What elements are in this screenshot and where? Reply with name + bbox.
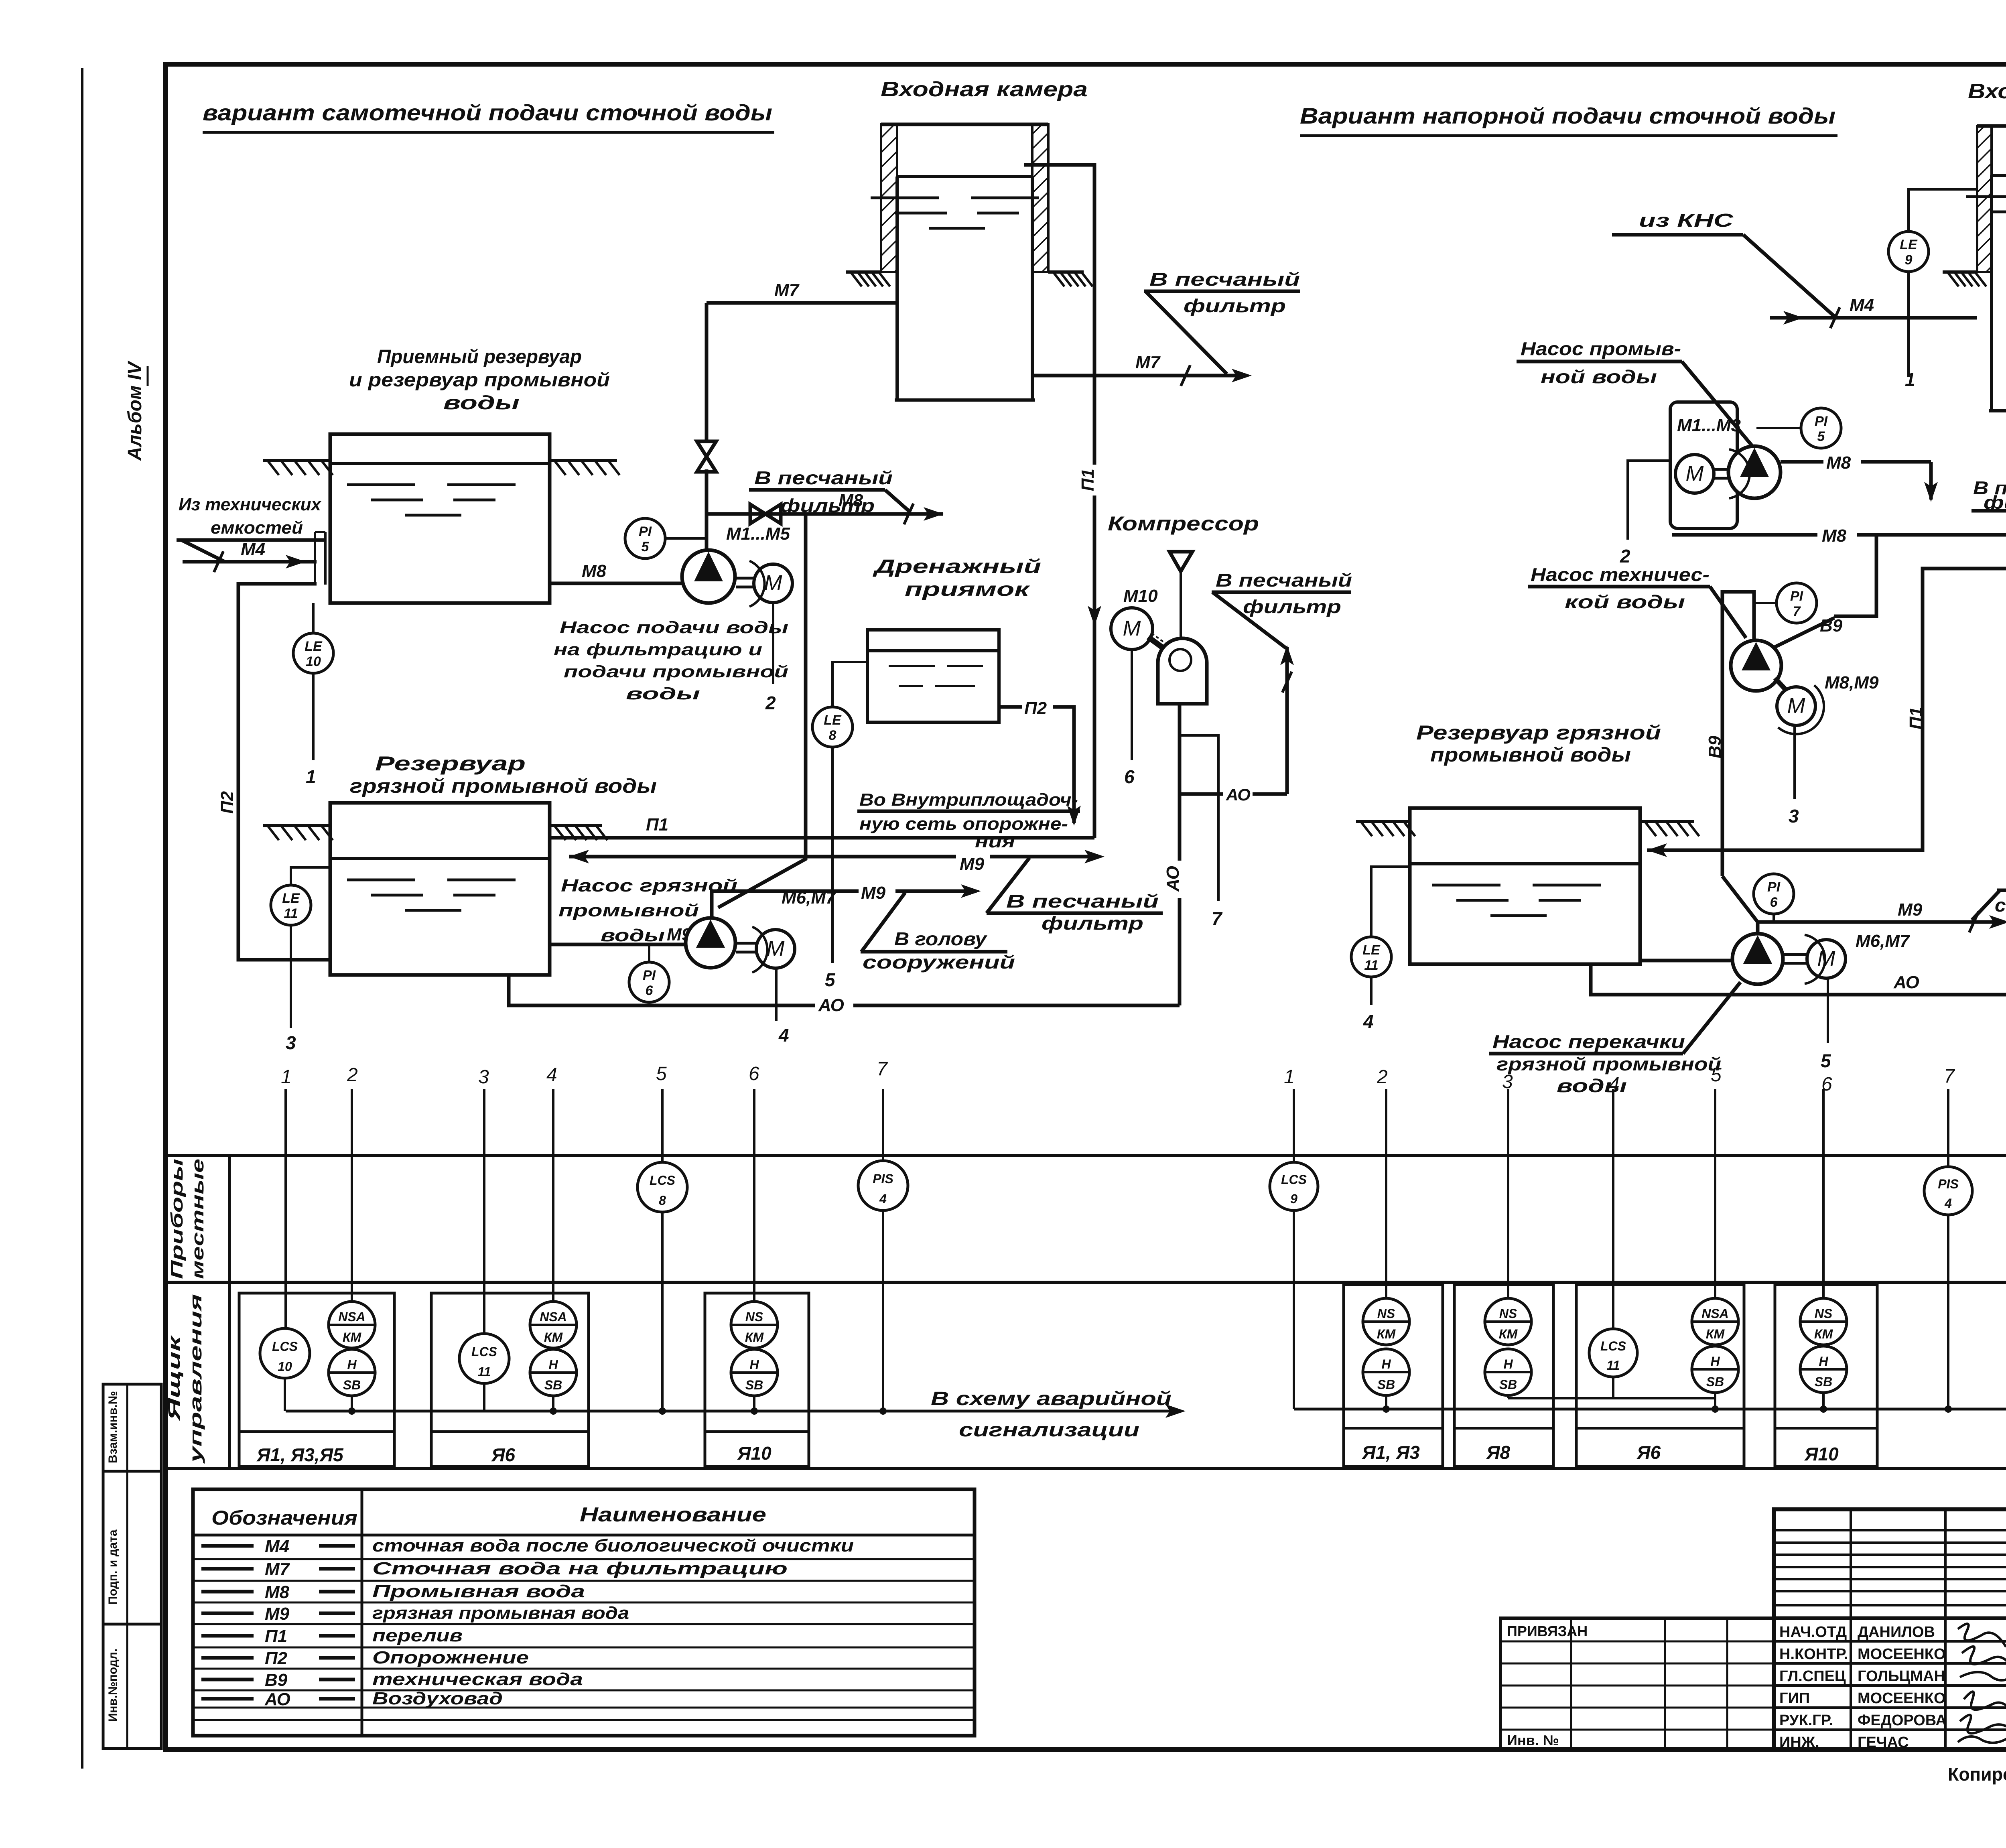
svg-text:7: 7	[1212, 908, 1223, 929]
svg-text:SВ: SВ	[544, 1378, 562, 1392]
svg-text:Дренажный: Дренажный	[872, 556, 1041, 577]
svg-text:Входная камера: Входная камера	[1968, 80, 2006, 103]
svg-text:грязной промывной воды: грязной промывной воды	[350, 775, 657, 797]
svg-text:М4: М4	[241, 540, 265, 559]
svg-text:Инв.№подл.: Инв.№подл.	[106, 1649, 120, 1722]
wire node 2 right	[1628, 461, 1670, 540]
svg-text:PI: PI	[1815, 414, 1828, 429]
instrument NSA KM box2	[530, 1302, 577, 1348]
motor of H2	[756, 930, 795, 968]
instrument PIS4 local	[858, 1161, 908, 1210]
svg-text:АО: АО	[1226, 785, 1251, 804]
wire to node 1	[312, 673, 315, 760]
svg-text:КМ: КМ	[745, 1330, 764, 1344]
motor of K1	[1111, 608, 1153, 650]
instrument NSA KM box1	[329, 1302, 375, 1348]
svg-text:7: 7	[1793, 604, 1801, 619]
wire M9 long to sand filter	[569, 855, 956, 859]
instrument NS KM rbox4	[1800, 1298, 1847, 1345]
instrument PI7	[1777, 583, 1817, 623]
instrument LE11	[291, 867, 330, 885]
svg-text:Н: Н	[749, 1357, 759, 1372]
svg-text:Опорожнение: Опорожнение	[372, 1648, 529, 1667]
svg-text:Во Внутриплощадоч-: Во Внутриплощадоч-	[859, 790, 1078, 810]
svg-text:В9: В9	[265, 1670, 288, 1690]
wire to node 4	[775, 968, 778, 1021]
instrument PI6	[629, 962, 669, 1002]
svg-text:6: 6	[749, 1063, 759, 1084]
svg-text:и резервуар промывной: и резервуар промывной	[349, 370, 610, 391]
svg-text:КМ: КМ	[343, 1330, 362, 1344]
wire to node 4 right	[1370, 978, 1373, 1005]
svg-text:Резервуар: Резервуар	[375, 752, 526, 775]
svg-text:П1: П1	[1078, 469, 1098, 491]
svg-text:М8: М8	[1822, 526, 1847, 546]
instrument LE8	[832, 662, 869, 707]
pump H5 transfer pump	[1732, 934, 1783, 984]
svg-text:ИНЖ.: ИНЖ.	[1779, 1734, 1819, 1751]
svg-text:5: 5	[1711, 1064, 1722, 1086]
svg-text:П2: П2	[265, 1649, 288, 1668]
instrument LE11 right	[1371, 867, 1410, 936]
svg-text:М9: М9	[960, 854, 985, 874]
svg-text:10: 10	[278, 1359, 292, 1374]
instrument LE10	[312, 603, 315, 633]
svg-text:сигнализации: сигнализации	[959, 1420, 1139, 1441]
instrument PI6 right	[1754, 874, 1794, 914]
instrument LCS11 left	[459, 1334, 509, 1383]
svg-text:М7: М7	[265, 1560, 290, 1579]
svg-text:1: 1	[281, 1066, 292, 1088]
wire AO to sand filter arrow	[1180, 792, 1223, 796]
svg-text:5: 5	[656, 1063, 667, 1084]
instrument table top line	[165, 1154, 2006, 1157]
svg-text:В9: В9	[1705, 735, 1725, 758]
row label divider	[228, 1156, 231, 1468]
svg-text:Насос перекачки: Насос перекачки	[1492, 1031, 1685, 1052]
svg-text:М4: М4	[265, 1537, 289, 1556]
svg-text:фильтр: фильтр	[1184, 295, 1286, 316]
svg-text:М7: М7	[774, 280, 800, 300]
svg-text:ния: ния	[975, 832, 1015, 851]
signature rows	[1774, 1640, 2006, 1643]
wire to node 5	[831, 747, 834, 963]
svg-text:ДАНИЛОВ: ДАНИЛОВ	[1858, 1624, 1935, 1641]
instrument H SB box2	[530, 1349, 577, 1396]
svg-text:Я1, Я3: Я1, Я3	[1362, 1442, 1420, 1463]
svg-text:NS: NS	[1377, 1306, 1395, 1321]
svg-text:NSA: NSA	[540, 1310, 567, 1324]
wire M9 discharge from H2	[712, 891, 859, 918]
legend line М7	[201, 1567, 254, 1571]
svg-text:вариант самотечной подачи с: вариант самотечной подачи сточной воды	[203, 100, 772, 125]
svg-text:5: 5	[1817, 429, 1825, 444]
svg-text:SВ: SВ	[1706, 1375, 1724, 1389]
svg-text:Я6: Я6	[1636, 1442, 1661, 1463]
svg-text:грязная промывная вода: грязная промывная вода	[372, 1603, 629, 1623]
ground left of T5	[1943, 270, 1977, 274]
pump H2 dirty wash pump	[686, 918, 735, 968]
svg-text:воды: воды	[626, 684, 700, 703]
left margin stamp boxes	[103, 1384, 161, 1748]
svg-text:АО: АО	[1893, 973, 1919, 992]
svg-text:LCS: LCS	[1600, 1339, 1626, 1353]
tank T1 receiving reservoir	[330, 434, 550, 603]
valve V1	[697, 441, 716, 472]
svg-text:PIS: PIS	[1938, 1177, 1959, 1191]
svg-text:PI: PI	[1767, 879, 1781, 895]
wire B9 kink to pump H5	[1722, 876, 1758, 922]
wire P2 from T1 to T2	[238, 584, 330, 960]
svg-text:приямок: приямок	[905, 579, 1031, 600]
svg-text:В песчаный: В песчаный	[754, 467, 893, 488]
svg-text:В9: В9	[1820, 616, 1843, 636]
instrument NS KM box3	[731, 1302, 778, 1348]
svg-text:Приемный резервуар: Приемный резервуар	[377, 346, 582, 368]
svg-text:1: 1	[1905, 369, 1915, 390]
svg-text:М8,М9: М8,М9	[1825, 673, 1879, 692]
ground left of T3	[846, 270, 881, 274]
svg-text:Н: Н	[1819, 1354, 1828, 1369]
wire B9 suction elbow	[1722, 592, 1754, 876]
wire to node 1 right	[1907, 272, 1910, 377]
svg-text:Взам.инв.№: Взам.инв.№	[106, 1391, 120, 1463]
svg-text:промывной: промывной	[558, 901, 699, 920]
svg-text:Резервуар грязной: Резервуар грязной	[1416, 721, 1661, 744]
svg-text:LCS: LCS	[1281, 1172, 1307, 1187]
svg-text:LE: LE	[824, 713, 842, 728]
wire M8 lower to sand filter	[1672, 533, 1817, 537]
svg-text:NS: NS	[1815, 1306, 1833, 1321]
svg-text:П2: П2	[217, 791, 237, 814]
svg-text:4: 4	[546, 1064, 557, 1086]
svg-text:М: М	[1817, 946, 1835, 971]
svg-text:8: 8	[829, 728, 837, 743]
title block thin rows top-left	[1774, 1529, 2006, 1531]
legend line П2	[201, 1656, 254, 1660]
svg-text:Обозначения: Обозначения	[211, 1507, 357, 1529]
svg-text:Промывная вода: Промывная вода	[372, 1582, 585, 1601]
interconnect segment	[1508, 1397, 1715, 1399]
svg-text:5: 5	[1821, 1050, 1831, 1071]
svg-text:АО: АО	[264, 1690, 290, 1709]
svg-text:М: М	[767, 936, 785, 961]
svg-text:М: М	[1123, 616, 1141, 640]
svg-text:1: 1	[306, 766, 316, 787]
svg-text:9: 9	[1290, 1192, 1297, 1206]
svg-text:КМ: КМ	[1706, 1327, 1725, 1341]
legend line В9	[201, 1678, 254, 1681]
svg-text:фильтр: фильтр	[1984, 492, 2006, 513]
svg-text:NS: NS	[1499, 1306, 1517, 1321]
pump H3	[1728, 446, 1781, 498]
instrument LCS10	[260, 1328, 310, 1378]
svg-text:сооружений: сооружений	[1995, 895, 2006, 916]
wire M8 upper discharge	[1781, 460, 1823, 464]
instrument H SB rbox2	[1485, 1349, 1531, 1395]
motor of H3	[1675, 455, 1714, 493]
wire node 3 right	[1793, 726, 1796, 799]
ground right of T3	[1048, 270, 1084, 274]
svg-text:6: 6	[646, 983, 654, 998]
wire M9 suction T2 to pump H2	[550, 943, 687, 946]
svg-text:из КНС: из КНС	[1639, 210, 1734, 231]
svg-text:4: 4	[1944, 1196, 1952, 1210]
wire node 6 from M10	[1131, 650, 1133, 760]
svg-text:М9: М9	[1898, 900, 1923, 920]
svg-text:МОСЕЕНКО: МОСЕЕНКО	[1858, 1646, 1946, 1663]
legend line АО	[201, 1697, 254, 1701]
privyazan table	[1500, 1618, 1774, 1749]
instrument H SB rbox4	[1800, 1346, 1847, 1393]
wire B9 discharge	[1834, 535, 1876, 616]
wire M9 suction right	[1640, 959, 1732, 963]
svg-text:Вариант напорной подачи сто: Вариант напорной подачи сточной воды	[1300, 103, 1835, 128]
svg-text:ной воды: ной воды	[1541, 366, 1657, 387]
svg-text:М4: М4	[1850, 295, 1874, 315]
svg-text:Я1, Я3,Я5: Я1, Я3,Я5	[256, 1444, 344, 1465]
svg-text:В песчаный: В песчаный	[1149, 269, 1300, 290]
svg-text:4: 4	[778, 1025, 789, 1046]
T1 inlet stub	[314, 532, 316, 585]
instrument PIS4 local right	[1924, 1167, 1972, 1215]
svg-text:сточная вода после биологиче: сточная вода после биологической очистки	[372, 1536, 854, 1556]
ground left of T2	[263, 824, 330, 827]
ground right of T2	[550, 824, 602, 827]
svg-text:АО: АО	[1163, 866, 1183, 892]
instrument H SB box1	[329, 1349, 375, 1396]
svg-text:ПРИВЯЗАН: ПРИВЯЗАН	[1507, 1623, 1588, 1639]
svg-text:В схему аварийной: В схему аварийной	[931, 1388, 1172, 1409]
svg-text:фильтр: фильтр	[1042, 913, 1143, 934]
wire M9 discharge right	[1758, 920, 2001, 924]
svg-text:М9: М9	[265, 1604, 290, 1624]
svg-text:ГОЛЬЦМАН: ГОЛЬЦМАН	[1858, 1668, 1945, 1685]
body of K1 blower	[1158, 638, 1207, 704]
svg-text:9: 9	[1905, 252, 1913, 268]
svg-text:PI: PI	[639, 524, 652, 539]
wire branch to node 7	[1180, 735, 1218, 901]
svg-text:М1...М5: М1...М5	[726, 524, 790, 544]
instrument LCS8 local	[638, 1162, 687, 1212]
wire P1 overflow right	[1647, 163, 2006, 850]
svg-text:КМ: КМ	[1377, 1327, 1396, 1341]
svg-text:Насос техничес-: Насос техничес-	[1531, 564, 1710, 585]
svg-text:LCS: LCS	[272, 1339, 298, 1354]
svg-text:Подп. и дата: Подп. и дата	[106, 1529, 120, 1605]
instrument LCS11 right box	[1589, 1329, 1637, 1377]
svg-text:SВ: SВ	[1377, 1377, 1395, 1392]
svg-text:Н: Н	[1381, 1357, 1391, 1371]
ground left of T6	[1356, 820, 1410, 823]
wire node 5 right	[1827, 978, 1829, 1043]
svg-text:Я8: Я8	[1486, 1442, 1511, 1463]
svg-text:МОСЕЕНКО: МОСЕЕНКО	[1858, 1690, 1946, 1707]
instrument table mid line	[165, 1281, 2006, 1284]
svg-text:грязной промывной: грязной промывной	[1496, 1054, 1721, 1074]
svg-text:на фильтрацию и: на фильтрацию и	[554, 640, 762, 659]
svg-text:LE: LE	[282, 891, 300, 906]
svg-text:М: М	[764, 571, 782, 595]
svg-text:Я6: Я6	[491, 1444, 516, 1465]
svg-text:Я10: Я10	[1804, 1444, 1839, 1464]
instrument NS KM rbox1	[1363, 1298, 1409, 1345]
ground left of T1	[263, 459, 330, 462]
instrument table bottom line	[165, 1467, 2006, 1470]
control box Ya8 right	[1454, 1285, 1553, 1466]
svg-text:кой воды: кой воды	[1565, 591, 1685, 612]
svg-text:ГЛ.СПЕЦ: ГЛ.СПЕЦ	[1779, 1668, 1846, 1685]
svg-text:П1: П1	[646, 815, 668, 835]
svg-text:11: 11	[284, 906, 298, 921]
svg-text:LE: LE	[1362, 942, 1381, 958]
svg-text:6: 6	[1124, 766, 1135, 787]
svg-text:техническая вода: техническая вода	[372, 1669, 583, 1689]
svg-text:местные: местные	[188, 1159, 207, 1279]
svg-text:Насос промыв-: Насос промыв-	[1521, 338, 1681, 359]
svg-text:воды: воды	[601, 926, 665, 945]
svg-text:2: 2	[765, 692, 776, 713]
svg-text:NS: NS	[745, 1310, 763, 1324]
svg-text:11: 11	[477, 1365, 491, 1379]
svg-text:3: 3	[478, 1066, 489, 1088]
svg-text:М8: М8	[265, 1582, 290, 1602]
svg-text:NSA: NSA	[338, 1310, 365, 1324]
title block outer	[1774, 1509, 2006, 1749]
svg-text:В песчаный: В песчаный	[1216, 570, 1352, 591]
svg-text:управления: управления	[186, 1294, 205, 1464]
svg-text:ФЕДОРОВА: ФЕДОРОВА	[1858, 1712, 1947, 1729]
svg-text:3: 3	[286, 1032, 296, 1053]
svg-text:10: 10	[306, 654, 321, 669]
valve V2	[750, 504, 781, 524]
svg-text:Инв. №: Инв. №	[1507, 1732, 1559, 1748]
svg-text:М7: М7	[1135, 353, 1161, 372]
svg-text:LE: LE	[1900, 237, 1918, 252]
legend line М4	[201, 1544, 254, 1548]
svg-text:SВ: SВ	[1499, 1377, 1517, 1392]
instrument PI5 right	[1801, 408, 1841, 448]
svg-text:NSA: NSA	[1701, 1306, 1729, 1321]
motor of H5	[1807, 940, 1846, 978]
instrument H SB rbox1	[1363, 1349, 1409, 1395]
svg-text:емкостей: емкостей	[211, 518, 303, 538]
alarm bus right	[1294, 1408, 2006, 1411]
svg-text:4: 4	[879, 1192, 887, 1206]
drop wires right	[1293, 1089, 1295, 1162]
svg-text:воды: воды	[443, 392, 520, 414]
wire to node 2	[772, 603, 774, 684]
svg-text:П2: П2	[1024, 699, 1047, 718]
svg-text:ГЕЧАС: ГЕЧАС	[1858, 1734, 1909, 1751]
svg-text:Н: Н	[347, 1357, 357, 1372]
svg-text:Н: Н	[548, 1357, 558, 1372]
svg-text:SВ: SВ	[1815, 1375, 1832, 1389]
svg-text:Н.КОНТР.: Н.КОНТР.	[1779, 1646, 1848, 1663]
svg-text:Н: Н	[1503, 1357, 1513, 1371]
svg-text:промывной воды: промывной воды	[1430, 743, 1631, 766]
svg-text:5: 5	[825, 969, 836, 990]
svg-text:Из технических: Из технических	[179, 495, 322, 514]
svg-text:Я10: Я10	[737, 1443, 772, 1464]
signatures scribbles	[1958, 1624, 2006, 1647]
wire M4 inlet right	[1770, 316, 1977, 320]
svg-text:М8: М8	[1826, 453, 1851, 473]
svg-text:В песчаный: В песчаный	[1006, 891, 1159, 912]
control box Ya6 right	[1576, 1285, 1744, 1466]
svg-text:2: 2	[1377, 1066, 1388, 1088]
svg-text:4: 4	[1363, 1011, 1374, 1032]
svg-text:НАЧ.ОТД: НАЧ.ОТД	[1779, 1624, 1847, 1641]
svg-text:PI: PI	[1790, 589, 1804, 604]
svg-text:5: 5	[642, 539, 650, 554]
legend line М9	[201, 1612, 254, 1615]
svg-text:PIS: PIS	[873, 1172, 893, 1186]
svg-text:11: 11	[1606, 1358, 1620, 1373]
wire P1 horizontal to T2	[550, 836, 1094, 840]
svg-text:LCS: LCS	[471, 1344, 497, 1359]
svg-text:SВ: SВ	[343, 1378, 361, 1392]
motor of H4	[1777, 687, 1815, 725]
wire M7 to inlet chamber	[707, 301, 897, 305]
svg-text:Копировал:: Копировал:	[1948, 1764, 2006, 1785]
svg-text:2: 2	[1620, 546, 1630, 567]
pump H4 tech water pump	[1731, 640, 1781, 691]
svg-text:фильтр: фильтр	[1243, 596, 1341, 617]
svg-text:КМ: КМ	[1499, 1327, 1518, 1341]
svg-text:М8: М8	[582, 561, 607, 581]
svg-text:Воздуховад: Воздуховад	[372, 1689, 503, 1708]
instrument LE9	[1909, 189, 1977, 232]
svg-text:8: 8	[659, 1193, 666, 1208]
svg-text:6: 6	[1770, 895, 1778, 910]
svg-text:LE: LE	[305, 639, 323, 654]
svg-text:М9: М9	[861, 883, 886, 903]
instrument NSA KM rbox3	[1692, 1298, 1738, 1345]
wire M7 out of chamber	[1032, 374, 1246, 378]
svg-text:перелив: перелив	[372, 1626, 463, 1645]
svg-text:7: 7	[877, 1058, 888, 1080]
svg-text:Насос подачи воды: Насос подачи воды	[560, 618, 788, 637]
sheet edge line left	[81, 68, 83, 1769]
svg-text:Сточная вода на фильтрацию: Сточная вода на фильтрацию	[372, 1559, 788, 1578]
svg-text:Входная камера: Входная камера	[881, 78, 1088, 101]
control box Ya6 left	[431, 1293, 589, 1466]
svg-text:SВ: SВ	[745, 1378, 763, 1392]
svg-text:М6,М7: М6,М7	[1856, 931, 1911, 951]
svg-text:ную сеть опорожне-: ную сеть опорожне-	[859, 814, 1068, 834]
svg-text:фильтр: фильтр	[780, 495, 875, 516]
control box Ya10 right	[1775, 1285, 1877, 1466]
svg-text:сооружений: сооружений	[863, 952, 1015, 973]
legend table	[193, 1489, 975, 1736]
wire M8 branch down to pump H2	[718, 514, 806, 908]
svg-text:2: 2	[347, 1064, 358, 1086]
instrument LCS9 local	[1270, 1162, 1318, 1210]
funnel of K1	[1169, 552, 1192, 571]
instrument NS KM rbox2	[1485, 1298, 1531, 1345]
instrument H SB box3	[731, 1349, 778, 1396]
svg-text:1: 1	[1284, 1066, 1295, 1088]
drop wires left	[284, 1089, 287, 1328]
svg-text:П1: П1	[265, 1627, 287, 1646]
legend line М8	[201, 1590, 254, 1594]
instrument PI5	[625, 518, 665, 558]
control box Ya10 left	[705, 1293, 809, 1466]
wire P1 overflow from T3	[1024, 165, 1094, 465]
svg-text:В голову: В голову	[894, 928, 988, 949]
svg-text:АО: АО	[818, 995, 844, 1015]
